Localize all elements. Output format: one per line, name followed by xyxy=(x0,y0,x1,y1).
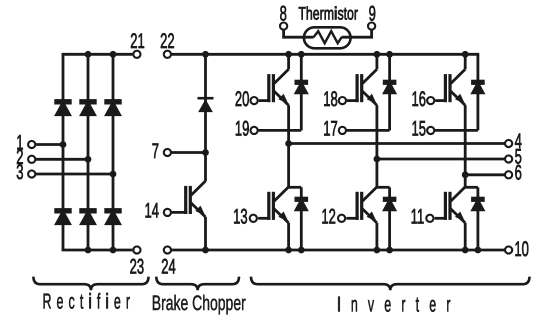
wire: AC input pin 1 lead xyxy=(35,143,63,146)
svg-text:14: 14 xyxy=(145,200,160,223)
pin 4 terminal xyxy=(505,140,512,147)
pin 13 terminal xyxy=(250,215,257,222)
pin 15 terminal xyxy=(427,127,434,134)
wire: gate lead pin 11 xyxy=(435,217,447,220)
pin 9 terminal xyxy=(368,23,375,30)
junction: leg 1 bottom diode / DC- rail xyxy=(299,248,303,252)
resistor RT1 (thermistor body) xyxy=(304,27,351,48)
resistor RT1 zigzag element xyxy=(314,31,342,43)
wire: leg 2 bottom freewheel diode branch xyxy=(388,187,391,250)
wire: DC+ rail from pin 22 to inverter xyxy=(171,53,479,56)
pin 19 terminal xyxy=(251,127,258,134)
pin 8 terminal xyxy=(280,23,287,30)
junction: leg 3 emitter / DC- rail xyxy=(463,248,467,252)
wire: gate lead pin 12 xyxy=(346,217,358,220)
wire: leg 3 top freewheel diode branch xyxy=(476,54,479,130)
wire: leg 1 bottom diode jog xyxy=(287,186,301,189)
transistor Q4 (inverter bottom IGBT) xyxy=(356,187,377,223)
svg-text:6: 6 xyxy=(515,161,522,184)
brace: Inverter section xyxy=(251,277,530,291)
diode D3 (rectifier top, phase 3) xyxy=(106,101,121,115)
wire: brake chopper branch vertical xyxy=(204,54,207,181)
pin 5 terminal xyxy=(505,155,512,162)
wire: leg 3 top collector from DC+ rail xyxy=(464,54,467,69)
junction: phase 1 output / leg xyxy=(287,142,291,146)
wire: rectifier leg 3 vertical xyxy=(112,54,115,250)
wire: leg 3 bottom freewheel diode branch xyxy=(476,187,479,250)
junction: chopper branch / DC+ rail xyxy=(204,52,208,56)
pin 21 terminal xyxy=(133,51,140,58)
junction: pin 3 lead / leg xyxy=(111,172,115,176)
wire: leg 2 bottom emitter to DC- rail xyxy=(375,223,378,250)
diode D2 (rectifier top, phase 2) xyxy=(81,101,96,115)
svg-text:24: 24 xyxy=(161,256,176,279)
wire: leg 2 top collector from DC+ rail xyxy=(375,54,378,69)
svg-text:9: 9 xyxy=(369,3,376,26)
wire: chopper emitter to DC- rail xyxy=(204,217,207,250)
wire: AC input pin 2 lead xyxy=(35,158,88,161)
wire: gate lead pin 14 xyxy=(171,211,187,214)
diode D9 (top freewheel, leg 2) xyxy=(384,81,395,93)
wire: leg 3 phase node vertical xyxy=(464,105,467,187)
wire: gate lead pin 16 xyxy=(435,99,447,102)
diode D6 (rectifier bottom, phase 3) xyxy=(106,210,121,224)
svg-text:11: 11 xyxy=(411,206,425,229)
junction: chopper emitter / DC- rail xyxy=(204,248,208,252)
wire: gate lead pin 13 xyxy=(258,217,270,220)
pin 16 terminal xyxy=(427,97,434,104)
junction: leg 2 collector / DC+ rail xyxy=(375,52,379,56)
brace: Brake Chopper section xyxy=(156,277,239,291)
junction: pin 2 lead / leg xyxy=(86,157,90,161)
wire: rectifier negative rail to pin 23 xyxy=(62,249,133,252)
svg-text:Brake Chopper: Brake Chopper xyxy=(152,292,246,315)
junction: phase2 leg / positive rail xyxy=(86,52,90,56)
junction: pin 1 lead / leg xyxy=(61,143,65,147)
diode D12 (bottom freewheel, leg 2) xyxy=(384,198,395,210)
wire: gate lead pin 18 xyxy=(347,99,359,102)
pin 18 terminal xyxy=(339,97,346,104)
svg-text:15: 15 xyxy=(412,118,426,141)
svg-text:Inverter: Inverter xyxy=(337,293,460,317)
junction: leg 2 bottom diode / DC- rail xyxy=(388,248,392,252)
wire: leg 2 phase node vertical xyxy=(375,105,378,187)
svg-text:Rectifier: Rectifier xyxy=(43,290,136,314)
svg-text:17: 17 xyxy=(323,118,337,141)
diode D1 (rectifier top, phase 1) xyxy=(56,101,71,115)
wire: rectifier leg 1 vertical xyxy=(62,54,65,250)
diode D7 (brake chopper) xyxy=(198,97,214,112)
svg-text:18: 18 xyxy=(323,88,337,111)
svg-text:22: 22 xyxy=(160,30,174,53)
pin 7 terminal xyxy=(164,149,171,156)
svg-text:Thermistor: Thermistor xyxy=(298,4,358,24)
wire: leg 1 bottom emitter to DC- rail xyxy=(287,223,290,250)
junction: phase 2 output / leg xyxy=(375,157,379,161)
wire: pin 8 lead to thermistor xyxy=(284,30,314,38)
wire: pin 19 emitter sense lead xyxy=(258,129,302,132)
wire: pin 9 lead to thermistor xyxy=(342,30,372,38)
wire: phase output to pin 6 xyxy=(465,173,505,176)
wire: leg 3 bottom diode jog xyxy=(464,186,478,189)
wire: leg 1 phase node vertical xyxy=(287,105,290,187)
transistor Q7 (brake chopper IGBT) xyxy=(184,181,205,217)
junction: leg 3 bottom diode / DC- rail xyxy=(476,248,480,252)
diode D4 (rectifier bottom, phase 1) xyxy=(56,210,71,224)
junction: leg 3 collector / DC+ rail xyxy=(463,52,467,56)
pin 3 terminal xyxy=(28,170,35,177)
wire: AC input pin 3 lead xyxy=(35,173,113,176)
transistor Q5 (inverter top IGBT) xyxy=(444,69,465,105)
junction: phase 3 output / leg xyxy=(463,173,467,177)
pin 23 terminal xyxy=(133,246,140,253)
wire: leg 2 top freewheel diode branch xyxy=(388,54,391,130)
svg-text:3: 3 xyxy=(16,161,23,184)
svg-text:21: 21 xyxy=(130,30,144,53)
diode D5 (rectifier bottom, phase 2) xyxy=(81,210,96,224)
brace: Rectifier section xyxy=(33,277,148,291)
junction: phase3 leg / positive rail xyxy=(111,52,115,56)
junction: phase2 leg / negative rail xyxy=(86,248,90,252)
svg-text:8: 8 xyxy=(280,3,287,26)
wire: leg 2 bottom diode jog xyxy=(376,186,390,189)
wire: phase output to pin 4 xyxy=(289,142,505,145)
pin 11 terminal xyxy=(426,215,433,222)
diode D11 (bottom freewheel, leg 1) xyxy=(296,198,307,210)
diode D8 (top freewheel, leg 1) xyxy=(296,81,307,93)
junction: leg 1 top diode / DC+ rail xyxy=(299,52,303,56)
junction: phase3 leg / negative rail xyxy=(111,248,115,252)
transistor Q1 (inverter top IGBT) xyxy=(267,69,288,105)
wire: pin 7 lead xyxy=(171,151,206,154)
pin 17 terminal xyxy=(339,127,346,134)
svg-text:19: 19 xyxy=(235,118,249,141)
wire: rectifier leg 2 vertical xyxy=(87,54,90,250)
svg-text:12: 12 xyxy=(321,206,335,229)
svg-text:13: 13 xyxy=(233,206,247,229)
pin 10 terminal xyxy=(505,246,512,253)
pin 14 terminal xyxy=(164,209,171,216)
svg-text:23: 23 xyxy=(130,256,144,279)
wire: gate lead pin 20 xyxy=(259,99,271,102)
svg-text:20: 20 xyxy=(235,88,249,111)
pin 12 terminal xyxy=(338,215,345,222)
wire: pin 15 emitter sense lead xyxy=(434,129,478,132)
wire: phase output to pin 5 xyxy=(377,158,505,161)
wire: leg 1 top collector from DC+ rail xyxy=(287,54,290,69)
junction: leg 1 emitter / DC- rail xyxy=(287,248,291,252)
pin 1 terminal xyxy=(28,141,35,148)
pin 20 terminal xyxy=(251,97,258,104)
wire: leg 1 top freewheel diode branch xyxy=(300,54,303,130)
wire: rectifier positive rail to pin 21 xyxy=(62,53,133,56)
svg-text:7: 7 xyxy=(152,140,159,163)
transistor Q2 (inverter bottom IGBT) xyxy=(267,187,288,223)
junction: leg 1 collector / DC+ rail xyxy=(287,52,291,56)
pin 2 terminal xyxy=(28,156,35,163)
svg-text:16: 16 xyxy=(412,88,426,111)
diode D10 (top freewheel, leg 3) xyxy=(473,81,484,93)
pin 24 terminal xyxy=(164,246,171,253)
wire: leg 1 bottom freewheel diode branch xyxy=(300,187,303,250)
wire: pin 17 emitter sense lead xyxy=(346,129,390,132)
diode D13 (bottom freewheel, leg 3) xyxy=(473,198,484,210)
transistor Q3 (inverter top IGBT) xyxy=(356,69,377,105)
junction: pin 7 lead / chopper branch xyxy=(204,151,208,155)
transistor Q6 (inverter bottom IGBT) xyxy=(444,187,465,223)
wire: DC- rail from pin 24 to pin 10 xyxy=(171,249,505,252)
junction: leg 2 top diode / DC+ rail xyxy=(388,52,392,56)
junction: leg 2 emitter / DC- rail xyxy=(375,248,379,252)
pin 6 terminal xyxy=(505,171,512,178)
pin 22 terminal xyxy=(164,51,171,58)
wire: leg 3 bottom emitter to DC- rail xyxy=(464,223,467,250)
svg-text:10: 10 xyxy=(514,238,528,261)
